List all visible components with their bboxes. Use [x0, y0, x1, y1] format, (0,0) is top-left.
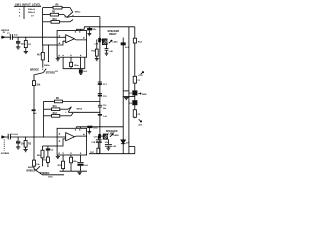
svg-text:2k2: 2k2: [33, 113, 37, 115]
svg-text:10k: 10k: [36, 84, 41, 86]
svg-text:200mV: 200mV: [28, 9, 36, 11]
svg-text:+4Ω5: +4Ω5: [112, 41, 118, 44]
svg-text:L: L: [65, 112, 67, 114]
svg-text:2u2: 2u2: [14, 35, 18, 37]
svg-text:C5: C5: [51, 150, 55, 152]
svg-text:R14: R14: [138, 40, 143, 43]
svg-text:L: L: [19, 9, 21, 11]
svg-text:BRIDGE: BRIDGE: [27, 170, 36, 172]
svg-text:RIGHT: RIGHT: [109, 33, 117, 36]
svg-text:R12: R12: [53, 113, 58, 115]
svg-text:100n: 100n: [74, 65, 79, 67]
svg-text:SCREEN: SCREEN: [1, 153, 10, 155]
svg-text:C16: C16: [94, 137, 99, 139]
svg-text:BRIDGE: BRIDGE: [30, 70, 39, 72]
svg-text:■: ■: [19, 12, 20, 14]
svg-text:D2: D2: [129, 103, 133, 105]
svg-text:SW2a: SW2a: [44, 65, 51, 67]
svg-text:STEREO: STEREO: [46, 72, 56, 74]
svg-text:1u5: 1u5: [103, 116, 107, 118]
svg-text:SW1a: SW1a: [75, 11, 82, 13]
svg-text:R10: R10: [53, 19, 58, 21]
svg-text:220p: 220p: [21, 44, 26, 46]
svg-text:+15V: +15V: [138, 75, 144, 77]
svg-text:D1: D1: [129, 93, 133, 95]
svg-text:100n: 100n: [93, 127, 98, 129]
svg-text:10u: 10u: [103, 108, 107, 110]
svg-text:10u: 10u: [93, 29, 97, 31]
svg-text:SW2b: SW2b: [28, 167, 35, 169]
svg-text:100n: 100n: [48, 177, 53, 179]
svg-text:C18: C18: [91, 142, 96, 144]
svg-text:C15: C15: [103, 96, 108, 98]
svg-text:■: ■: [19, 16, 20, 18]
svg-text:R1: R1: [28, 44, 32, 46]
svg-text:C3 2u2: C3 2u2: [11, 134, 19, 136]
svg-text:C13: C13: [103, 84, 108, 86]
svg-text:STEREO: STEREO: [40, 173, 50, 175]
svg-text:10u: 10u: [21, 143, 26, 145]
svg-text:+4Ω5: +4Ω5: [114, 134, 120, 137]
svg-text:550mV: 550mV: [28, 12, 36, 14]
svg-text:R11: R11: [53, 106, 58, 108]
svg-text:10k: 10k: [36, 164, 40, 166]
svg-text:R2: R2: [28, 144, 32, 146]
svg-text:F2: F2: [138, 114, 141, 116]
svg-text:SW1b: SW1b: [76, 108, 83, 110]
svg-text:F1: F1: [138, 80, 141, 82]
svg-text:100n: 100n: [73, 161, 78, 163]
svg-text:680: 680: [37, 155, 41, 157]
svg-text:IN: IN: [3, 32, 6, 34]
svg-text:2u2: 2u2: [84, 165, 88, 167]
svg-text:1V: 1V: [31, 16, 34, 18]
svg-text:C10: C10: [94, 44, 99, 46]
svg-text:+45: +45: [109, 50, 113, 53]
svg-text:GND: GND: [142, 94, 147, 96]
svg-text:C6: C6: [55, 71, 59, 73]
svg-text:SW1 INPUT LEVEL: SW1 INPUT LEVEL: [15, 2, 41, 6]
svg-text:-15V: -15V: [138, 124, 143, 126]
svg-text:+45: +45: [112, 145, 116, 148]
svg-text:2u2: 2u2: [83, 71, 87, 73]
